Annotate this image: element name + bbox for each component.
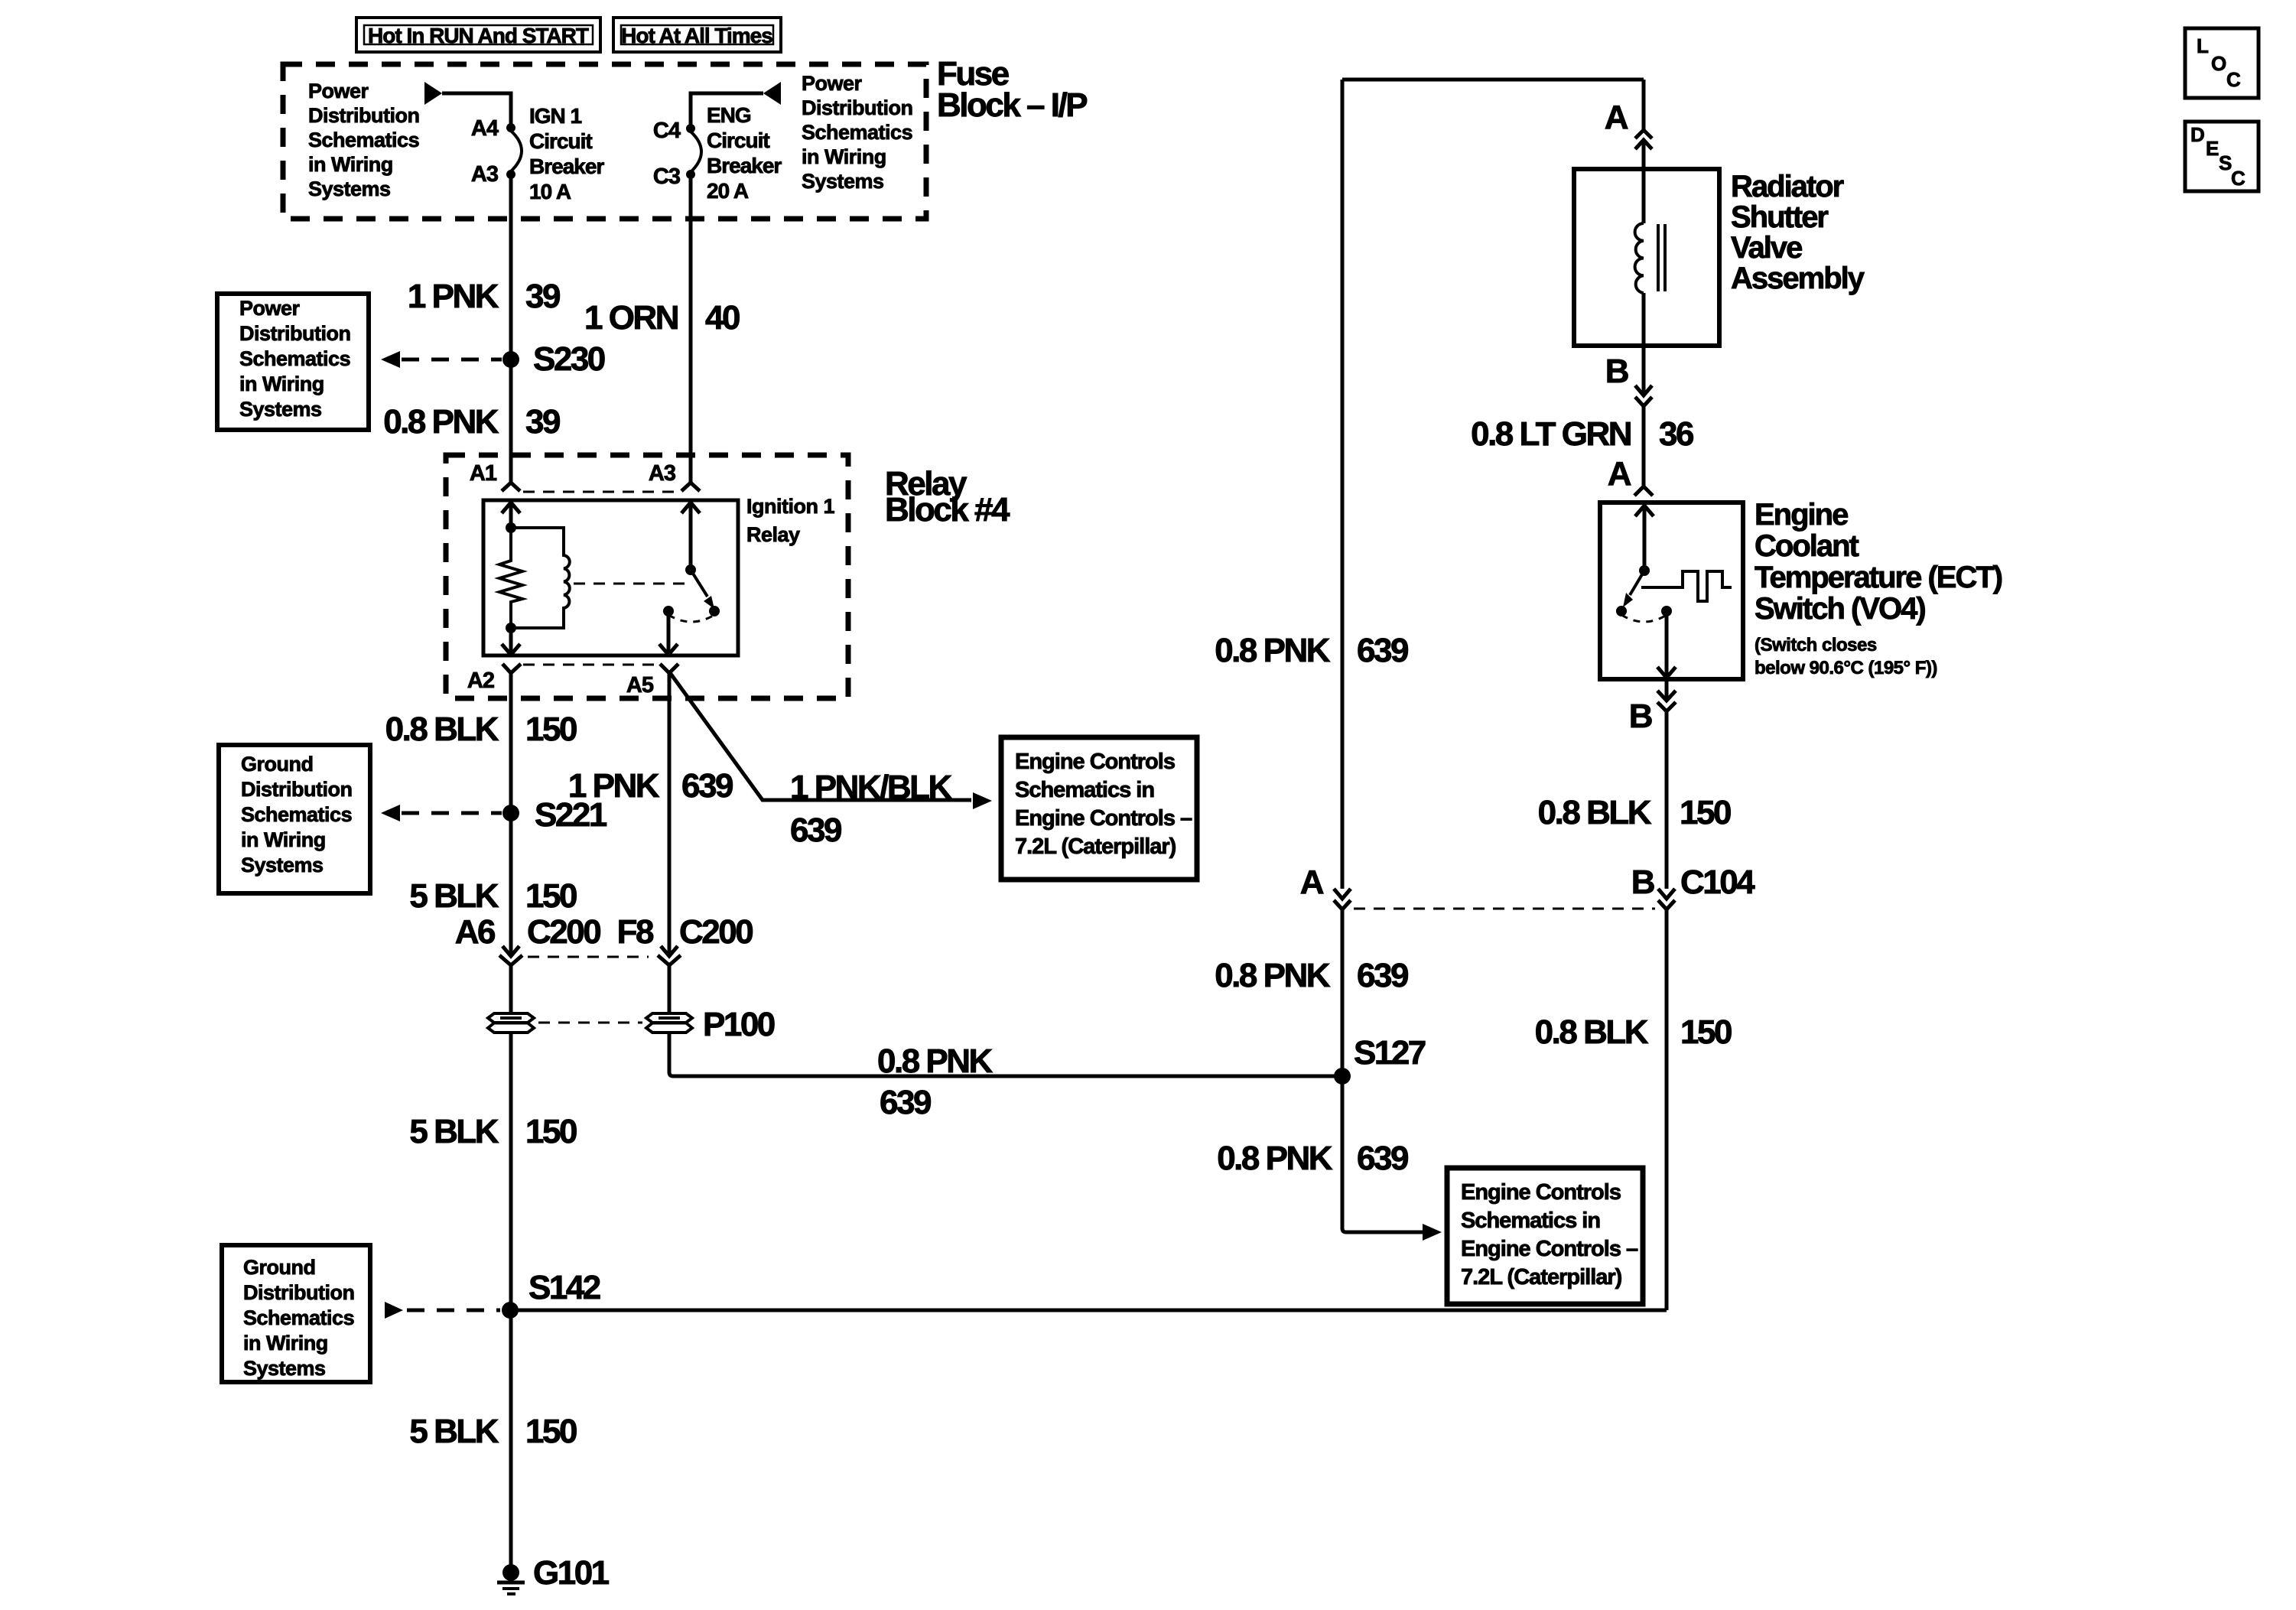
svg-text:IGN 1: IGN 1 — [529, 104, 582, 128]
svg-text:B: B — [1631, 864, 1654, 901]
svg-text:Schematics: Schematics — [243, 1306, 354, 1329]
dashed interface A1-A3 — [523, 491, 679, 493]
svg-text:A6: A6 — [455, 913, 495, 951]
svg-text:Assembly: Assembly — [1731, 262, 1865, 295]
svg-text:A3: A3 — [471, 162, 499, 187]
svg-text:O: O — [2211, 52, 2226, 75]
svg-text:150: 150 — [525, 877, 577, 915]
svg-text:0.8 LT GRN: 0.8 LT GRN — [1471, 415, 1631, 453]
dashed interface P100 — [538, 1022, 642, 1024]
svg-text:150: 150 — [525, 1413, 577, 1450]
svg-text:C: C — [2231, 167, 2246, 190]
svg-text:E: E — [2206, 137, 2219, 160]
svg-text:C3: C3 — [653, 164, 681, 189]
svg-text:Relay: Relay — [746, 523, 800, 546]
svg-text:Distribution: Distribution — [802, 96, 912, 119]
label 0.8 BLK 150 (lower right) — [1535, 1013, 1732, 1051]
DESC box — [2185, 122, 2259, 191]
svg-text:639: 639 — [790, 812, 841, 849]
grommet P100 (right) — [646, 1013, 692, 1033]
svg-text:C: C — [2226, 68, 2241, 91]
ground G101 — [497, 1554, 610, 1594]
svg-text:in Wiring: in Wiring — [239, 372, 324, 395]
label 1 PNK 39 — [408, 278, 560, 315]
wire: A5 diagonal takeoff to 1 PNK/BLK — [671, 674, 971, 800]
solenoid coil (radiator shutter valve) — [1635, 169, 1665, 346]
svg-text:Ground: Ground — [243, 1256, 315, 1279]
svg-text:Engine Controls –: Engine Controls – — [1015, 806, 1192, 831]
label 1 PNK/BLK 639 — [790, 769, 952, 849]
svg-text:150: 150 — [1680, 794, 1731, 831]
connector chevron A5 — [660, 664, 678, 673]
svg-text:Power: Power — [239, 297, 301, 320]
svg-text:C104: C104 — [1680, 864, 1755, 901]
label 5 BLK 150 (above C200) — [409, 877, 577, 915]
svg-text:Hot At All Times: Hot At All Times — [621, 24, 772, 47]
Fuse Block - I/P dashed box — [283, 64, 926, 219]
dashed control line coil to switch — [574, 583, 686, 585]
Hot At All Times label box — [613, 18, 781, 52]
svg-text:150: 150 — [525, 1113, 577, 1150]
svg-text:Power: Power — [802, 72, 863, 95]
connector chevron A1 — [502, 483, 520, 491]
connector chevron A2 — [502, 664, 521, 673]
label 0.8 PNK 639 (upper) — [1215, 632, 1408, 669]
svg-text:Block #4: Block #4 — [885, 491, 1010, 529]
reference box: Ground Distribution Schematics (lower) — [222, 1245, 370, 1382]
svg-text:Schematics in: Schematics in — [1015, 778, 1154, 802]
Fuse Block - I/P label — [937, 55, 1087, 124]
svg-text:Engine Controls –: Engine Controls – — [1461, 1237, 1638, 1261]
svg-text:5 BLK: 5 BLK — [409, 1113, 499, 1150]
svg-text:Distribution: Distribution — [243, 1281, 354, 1304]
svg-text:S221: S221 — [535, 796, 607, 834]
Power Distribution Schematics note (right, inside fuse block) — [802, 72, 912, 193]
svg-text:A4: A4 — [471, 116, 499, 141]
svg-text:Ground: Ground — [241, 753, 313, 776]
svg-text:S230: S230 — [533, 340, 605, 378]
wire: right section top run — [1342, 78, 1644, 82]
svg-text:Breaker: Breaker — [707, 154, 782, 177]
Relay Block #4 label — [885, 465, 1010, 529]
reference box: Power Distribution Schematics in Wiring Systems — [217, 294, 369, 430]
circuit breaker CB2 (ENG, 20 A) — [686, 124, 701, 179]
svg-text:Systems: Systems — [802, 170, 884, 193]
resistor (relay internal) — [499, 528, 522, 628]
label 0.8 BLK 150 (upper right) — [1538, 794, 1731, 831]
label 0.8 PNK 639 (P100 branch) — [877, 1042, 994, 1121]
wire: B down to ECT A — [1642, 406, 1646, 486]
node S221 — [502, 796, 607, 834]
svg-text:Ignition 1: Ignition 1 — [746, 495, 834, 518]
svg-text:Distribution: Distribution — [239, 322, 350, 345]
svg-text:639: 639 — [681, 767, 733, 805]
svg-text:B: B — [1629, 698, 1652, 735]
svg-text:A1: A1 — [470, 461, 497, 486]
svg-text:0.8 PNK: 0.8 PNK — [383, 403, 499, 441]
svg-text:0.8 BLK: 0.8 BLK — [385, 711, 499, 748]
dashed interface C104 — [1354, 908, 1655, 910]
svg-text:Shutter: Shutter — [1731, 200, 1828, 234]
reference box: Engine Controls Schematics (lower) — [1447, 1168, 1643, 1304]
svg-text:below 90.6°C (195° F)): below 90.6°C (195° F)) — [1755, 658, 1937, 678]
relay switch output arrow (A5 side) — [659, 611, 678, 655]
node S142 — [502, 1269, 600, 1319]
IGN 1 Circuit Breaker label — [529, 104, 604, 203]
label 0.8 LT GRN 36 — [1471, 415, 1693, 453]
svg-text:Distribution: Distribution — [308, 104, 419, 127]
svg-text:Switch (VO4): Switch (VO4) — [1755, 592, 1925, 626]
wire: S127 down and right to Engine Controls box — [1342, 1076, 1423, 1232]
svg-text:Radiator: Radiator — [1731, 170, 1844, 203]
svg-text:in Wiring: in Wiring — [243, 1332, 328, 1355]
svg-text:Circuit: Circuit — [529, 129, 592, 153]
svg-text:40: 40 — [705, 299, 740, 337]
svg-text:39: 39 — [525, 403, 560, 441]
svg-text:F8: F8 — [617, 913, 654, 951]
svg-text:in Wiring: in Wiring — [241, 828, 326, 851]
svg-text:639: 639 — [880, 1084, 931, 1121]
relay internal node (bottom) — [506, 623, 516, 633]
svg-text:0.8 PNK: 0.8 PNK — [1215, 632, 1331, 669]
connector chevron A3 — [681, 483, 700, 491]
label 0.8 PNK 639 (mid) — [1215, 957, 1408, 994]
svg-text:1 PNK/BLK: 1 PNK/BLK — [790, 769, 952, 806]
svg-text:L: L — [2197, 34, 2209, 57]
dashed interface C200 — [528, 956, 649, 958]
svg-text:Schematics: Schematics — [802, 121, 912, 144]
Power Distribution Schematics note (left, inside fuse block) — [308, 80, 419, 200]
dashed interface A2-A5 — [523, 664, 658, 666]
label 0.8 PNK 639 (lower) — [1217, 1140, 1408, 1177]
connector B (below ECT switch) — [1629, 679, 1676, 735]
svg-text:Systems: Systems — [239, 398, 322, 421]
circuit breaker CB1 (IGN 1, 10 A) — [506, 123, 522, 179]
LOC box — [2185, 28, 2259, 98]
svg-text:7.2L (Caterpillar): 7.2L (Caterpillar) — [1015, 834, 1176, 859]
svg-text:in Wiring: in Wiring — [308, 153, 393, 176]
wire: right section left drop — [1341, 80, 1345, 889]
svg-text:Valve: Valve — [1731, 231, 1802, 265]
svg-text:0.8 BLK: 0.8 BLK — [1535, 1013, 1649, 1051]
connector C104 (B side) — [1631, 864, 1755, 909]
svg-text:Coolant: Coolant — [1755, 529, 1859, 563]
wire: C104 A down to S127 — [1341, 909, 1345, 1076]
svg-text:S: S — [2219, 151, 2232, 174]
svg-text:Temperature (ECT): Temperature (ECT) — [1755, 561, 2002, 594]
svg-text:D: D — [2190, 123, 2204, 146]
svg-text:639: 639 — [1357, 957, 1408, 994]
svg-text:5 BLK: 5 BLK — [409, 1413, 499, 1450]
arrow into Engine Controls box — [973, 792, 992, 809]
label 0.8 BLK 150 — [385, 711, 577, 748]
relay coil input arrow (A1 side) — [502, 503, 520, 528]
svg-text:Systems: Systems — [241, 854, 324, 877]
svg-text:0.8 PNK: 0.8 PNK — [1217, 1140, 1333, 1177]
svg-text:150: 150 — [525, 711, 577, 748]
svg-text:Engine: Engine — [1755, 498, 1848, 532]
wire: A3 breaker down to relay A1 — [509, 174, 513, 483]
coil L1 (relay) — [511, 528, 570, 628]
svg-text:10 A: 10 A — [529, 180, 571, 203]
svg-text:0.8 PNK: 0.8 PNK — [877, 1042, 994, 1080]
svg-text:Schematics: Schematics — [241, 803, 352, 826]
reference box: Ground Distribution Schematics (upper) — [219, 745, 370, 893]
node S127 — [1334, 1034, 1426, 1085]
wire: ENG feed with arrow — [691, 82, 781, 125]
svg-text:639: 639 — [1357, 632, 1408, 669]
connector A (ECT switch) — [1608, 455, 1653, 496]
dashed arrow to S230 — [381, 351, 502, 368]
svg-text:in Wiring: in Wiring — [802, 145, 886, 168]
svg-text:5 BLK: 5 BLK — [409, 877, 499, 915]
label 0.8 PNK 39 — [383, 403, 560, 441]
svg-text:A3: A3 — [649, 461, 676, 486]
svg-text:Engine Controls: Engine Controls — [1015, 750, 1175, 774]
wire: A5 down to C200 — [668, 673, 672, 956]
svg-text:C200: C200 — [527, 913, 600, 951]
svg-text:Systems: Systems — [243, 1357, 326, 1380]
connector C104 (A side) — [1300, 864, 1351, 909]
svg-text:A: A — [1300, 864, 1324, 901]
svg-text:20 A: 20 A — [707, 179, 749, 203]
label 5 BLK 150 (mid) — [409, 1113, 577, 1150]
svg-text:Schematics: Schematics — [239, 347, 350, 370]
ENG Circuit Breaker label — [707, 103, 782, 203]
svg-text:Power: Power — [308, 80, 369, 102]
svg-text:S142: S142 — [528, 1269, 600, 1306]
svg-text:639: 639 — [1357, 1140, 1408, 1177]
wire: S142 long horizontal to right section — [510, 1309, 1667, 1312]
connector A (top right) — [1605, 80, 1652, 169]
reference box: Engine Controls Schematics (upper) — [1001, 737, 1197, 880]
Hot In RUN And START label box — [356, 18, 600, 52]
svg-text:Schematics in: Schematics in — [1461, 1208, 1600, 1233]
connector C200 (F8 side) — [658, 946, 681, 1013]
wire: right vertical down to S142 run — [1665, 909, 1669, 1310]
wire: C3 breaker down to relay A3 — [689, 174, 693, 483]
Engine Coolant Temperature (ECT) Switch box — [1600, 503, 1743, 679]
relay switch (movable contact) — [685, 564, 714, 609]
wire: IGN feed with arrow — [424, 82, 511, 125]
svg-text:C4: C4 — [653, 119, 681, 143]
label 1 PNK 639 (A5 wire) — [568, 767, 733, 805]
svg-text:7.2L (Caterpillar): 7.2L (Caterpillar) — [1461, 1265, 1622, 1290]
Relay Block #4 dashed box — [446, 455, 848, 698]
svg-text:Breaker: Breaker — [529, 154, 604, 178]
label 1 ORN 40 — [584, 299, 740, 337]
dashed arrow to S221 — [381, 805, 502, 821]
svg-text:Circuit: Circuit — [707, 128, 769, 152]
svg-text:C200: C200 — [679, 913, 753, 951]
svg-text:(Switch closes: (Switch closes — [1755, 635, 1877, 655]
svg-text:Systems: Systems — [308, 177, 391, 200]
svg-text:1 PNK: 1 PNK — [408, 278, 499, 315]
svg-text:ENG: ENG — [707, 103, 751, 127]
svg-text:Engine Controls: Engine Controls — [1461, 1180, 1621, 1205]
svg-text:A: A — [1605, 99, 1628, 136]
svg-text:Hot In RUN And START: Hot In RUN And START — [368, 24, 589, 47]
relay switch input arrow (A3 side) — [681, 503, 700, 570]
svg-text:B: B — [1605, 353, 1628, 390]
svg-text:A: A — [1608, 455, 1631, 493]
svg-text:150: 150 — [1680, 1013, 1732, 1051]
dashed arrow from box to S142 — [385, 1302, 500, 1319]
Ignition 1 Relay solid box — [483, 500, 738, 655]
svg-text:Schematics: Schematics — [308, 128, 419, 151]
grommet P100 (left) — [488, 1013, 534, 1033]
relay switch contacts — [663, 606, 720, 622]
ECT switch internals — [1616, 506, 1732, 678]
svg-text:A5: A5 — [626, 673, 654, 698]
connector B (below radiator valve) — [1605, 346, 1652, 406]
wire: A2 down to C200 — [509, 673, 513, 956]
relay coil output arrow (A2 side) — [502, 628, 520, 655]
node S230 — [502, 340, 605, 378]
svg-text:39: 39 — [525, 278, 560, 315]
wire: ECT B down to C104 — [1665, 711, 1669, 889]
relay internal node (top) — [506, 522, 516, 533]
Radiator Shutter Valve Assembly box — [1574, 169, 1719, 346]
svg-text:G101: G101 — [533, 1554, 610, 1592]
svg-text:0.8 BLK: 0.8 BLK — [1538, 794, 1652, 831]
svg-text:36: 36 — [1659, 415, 1693, 453]
wire: left below P100 down to S142 — [509, 1033, 513, 1568]
wire: right below P100 to S127 — [669, 1033, 1338, 1076]
svg-text:Distribution: Distribution — [241, 778, 352, 801]
connector C200 (A6 side) — [499, 946, 522, 1013]
label 5 BLK 150 (bottom) — [409, 1413, 577, 1450]
svg-text:0.8 PNK: 0.8 PNK — [1215, 957, 1331, 994]
svg-text:1 ORN: 1 ORN — [584, 299, 678, 337]
svg-text:S127: S127 — [1354, 1034, 1426, 1072]
svg-text:P100: P100 — [703, 1006, 775, 1043]
svg-text:Block – I/P: Block – I/P — [937, 86, 1087, 124]
svg-text:A2: A2 — [467, 668, 494, 693]
